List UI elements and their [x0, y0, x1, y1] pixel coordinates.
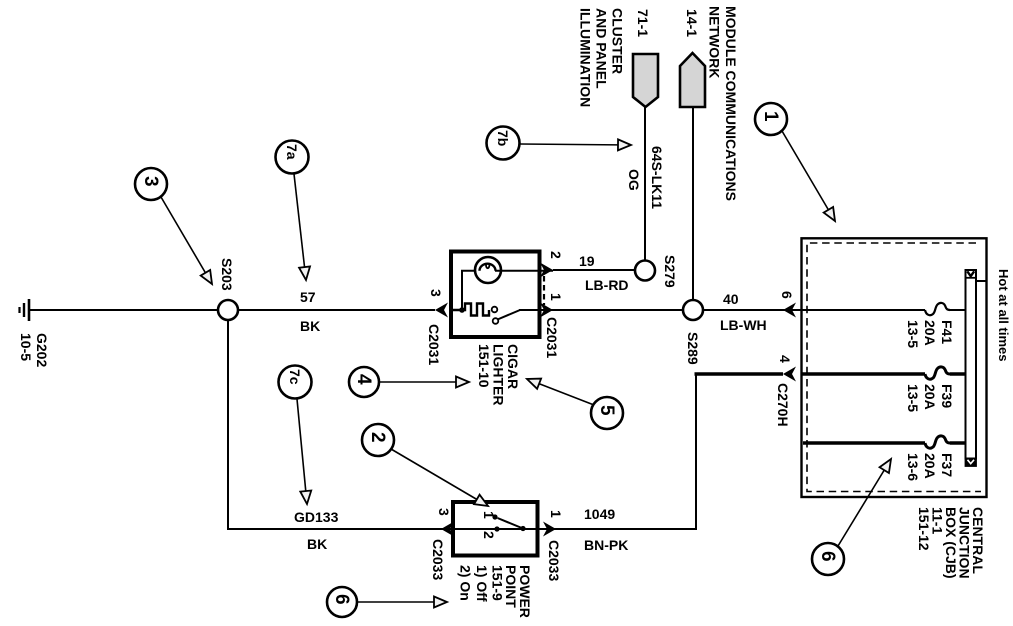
power point box U2 — [453, 502, 538, 556]
pin 3 arrow — [435, 303, 448, 318]
callout circle 6 lower-left — [327, 587, 357, 617]
leader arrow from 2 — [391, 449, 488, 506]
svg-text:S203: S203 — [219, 258, 235, 291]
svg-text:1: 1 — [760, 111, 781, 122]
wire S203 down leg — [228, 320, 441, 529]
svg-text:2: 2 — [481, 531, 497, 539]
callout circle 4 — [349, 367, 379, 397]
svg-text:64S-LK11: 64S-LK11 — [649, 146, 665, 209]
pin 3 arrow — [441, 522, 454, 537]
svg-text:1: 1 — [548, 293, 564, 301]
bus top terminal — [966, 277, 977, 279]
bus bottom terminal — [966, 459, 977, 467]
svg-text:4: 4 — [353, 374, 374, 385]
svg-text:5: 5 — [596, 405, 617, 416]
leader arrow from 5 — [527, 379, 594, 405]
CJB pin 6 arrow — [783, 303, 796, 318]
callout circle 6 lower-right — [812, 543, 844, 575]
splice S289 — [683, 300, 703, 320]
svg-text:S279: S279 — [662, 255, 678, 288]
svg-text:3: 3 — [140, 176, 161, 187]
central junction box outer — [802, 238, 987, 497]
lamp riser wire — [462, 271, 480, 310]
splice S279 — [635, 261, 655, 281]
svg-text:F3720A13-6: F3720A13-6 — [905, 453, 955, 481]
svg-text:4: 4 — [777, 355, 793, 363]
switch blade — [498, 518, 524, 529]
pin 2 arrow — [540, 263, 553, 278]
svg-text:C2033: C2033 — [430, 539, 446, 580]
off-page connector to 14-1 (module communications) — [680, 53, 705, 107]
wire 1049 BN-PK — [556, 374, 696, 529]
svg-text:6: 6 — [331, 594, 352, 605]
svg-text:7b: 7b — [495, 130, 511, 146]
wire 64S-LK11 riser — [644, 107, 646, 261]
svg-text:1049: 1049 — [584, 506, 615, 522]
common contact dot — [520, 526, 525, 531]
svg-text:1: 1 — [548, 510, 564, 518]
bus feed line — [976, 280, 987, 282]
fuse F41 wire — [783, 309, 925, 311]
contact b — [493, 318, 499, 324]
svg-text:S289: S289 — [685, 332, 701, 365]
svg-text:GD133: GD133 — [294, 509, 339, 525]
callout circle 7a — [276, 141, 309, 174]
svg-text:BK: BK — [307, 536, 327, 552]
callout circle 2 — [362, 424, 394, 456]
svg-text:2: 2 — [548, 251, 564, 259]
svg-text:F4120A13-5: F4120A13-5 — [905, 320, 955, 348]
switch blade — [498, 310, 521, 320]
contact a — [492, 307, 498, 313]
contact 2 dot — [494, 526, 499, 531]
pin 1 arrow — [543, 522, 556, 537]
callout circle 7c — [279, 366, 312, 399]
svg-text:19: 19 — [579, 253, 595, 269]
fuse F41 element — [925, 303, 950, 315]
leader arrow from 7a — [294, 174, 306, 280]
fuse F39 element — [925, 367, 950, 379]
wire cigar pin1 to S289 — [553, 309, 684, 311]
pin 1 arrow — [540, 303, 553, 318]
svg-text:57: 57 — [300, 289, 316, 305]
leader arrow from 6 — [838, 459, 891, 546]
callout circle 7b — [487, 127, 520, 160]
svg-text:LB-RD: LB-RD — [585, 277, 629, 293]
svg-text:1: 1 — [481, 511, 497, 519]
svg-text:C270H: C270H — [775, 383, 791, 427]
wire through power point — [441, 528, 556, 530]
off-page connector to 71-1 (cluster illumination) — [633, 54, 658, 107]
cigar lighter box U1 — [451, 252, 540, 338]
wire 40 LB-WH — [703, 309, 783, 311]
CJB pin 4 arrow — [783, 367, 796, 382]
leader arrow from 7c — [297, 399, 307, 504]
bus bar — [966, 270, 977, 459]
svg-text:14-1: 14-1 — [684, 9, 700, 37]
svg-text:6: 6 — [817, 551, 838, 562]
svg-text:7a: 7a — [284, 144, 300, 160]
svg-text:Hot at all times: Hot at all times — [996, 269, 1011, 361]
fuse F37 wire — [803, 441, 925, 445]
svg-text:BK: BK — [300, 318, 320, 334]
leader arrow from 4 — [379, 381, 469, 383]
leader arrow from 3 — [161, 197, 212, 284]
leader arrow from 7b — [520, 144, 631, 145]
svg-text:C2031: C2031 — [426, 324, 442, 365]
svg-text:F3920A13-5: F3920A13-5 — [905, 384, 955, 412]
connector dashed line C2031 — [543, 276, 545, 305]
lamp wire to pin 2 — [495, 270, 553, 272]
splice S203 — [218, 300, 238, 320]
junction dot — [459, 307, 465, 313]
svg-text:OG: OG — [626, 169, 642, 191]
contact 1 dot — [492, 514, 497, 519]
svg-text:LB-WH: LB-WH — [720, 317, 767, 333]
heating element — [453, 304, 489, 316]
svg-text:40: 40 — [723, 291, 739, 307]
callout circle 5 — [591, 397, 623, 429]
wire riser to S289 — [692, 107, 694, 301]
svg-text:BN-PK: BN-PK — [584, 537, 628, 553]
svg-text:6: 6 — [779, 291, 795, 299]
wire to pin 1 — [519, 309, 553, 311]
callout circle 3 — [135, 168, 167, 200]
wire ground run 57 BK — [29, 309, 435, 311]
fuse F39 wire — [801, 372, 925, 376]
ground G202 — [20, 299, 30, 321]
callout circle 1 — [755, 103, 787, 135]
svg-text:3: 3 — [436, 508, 452, 516]
leader arrow from 6 — [357, 601, 447, 603]
svg-text:71-1: 71-1 — [635, 9, 651, 37]
svg-text:3: 3 — [428, 289, 444, 297]
fuse F37 element — [925, 436, 950, 448]
lamp (illumination bulb) — [475, 257, 501, 283]
svg-text:7c: 7c — [287, 369, 303, 385]
wire 19 LB-RD — [553, 269, 636, 271]
leader arrow from 1 — [782, 131, 835, 221]
svg-text:C2031: C2031 — [544, 317, 560, 358]
central junction box dashed inner — [807, 243, 981, 492]
svg-text:C2033: C2033 — [546, 540, 562, 581]
svg-text:2: 2 — [367, 432, 388, 443]
